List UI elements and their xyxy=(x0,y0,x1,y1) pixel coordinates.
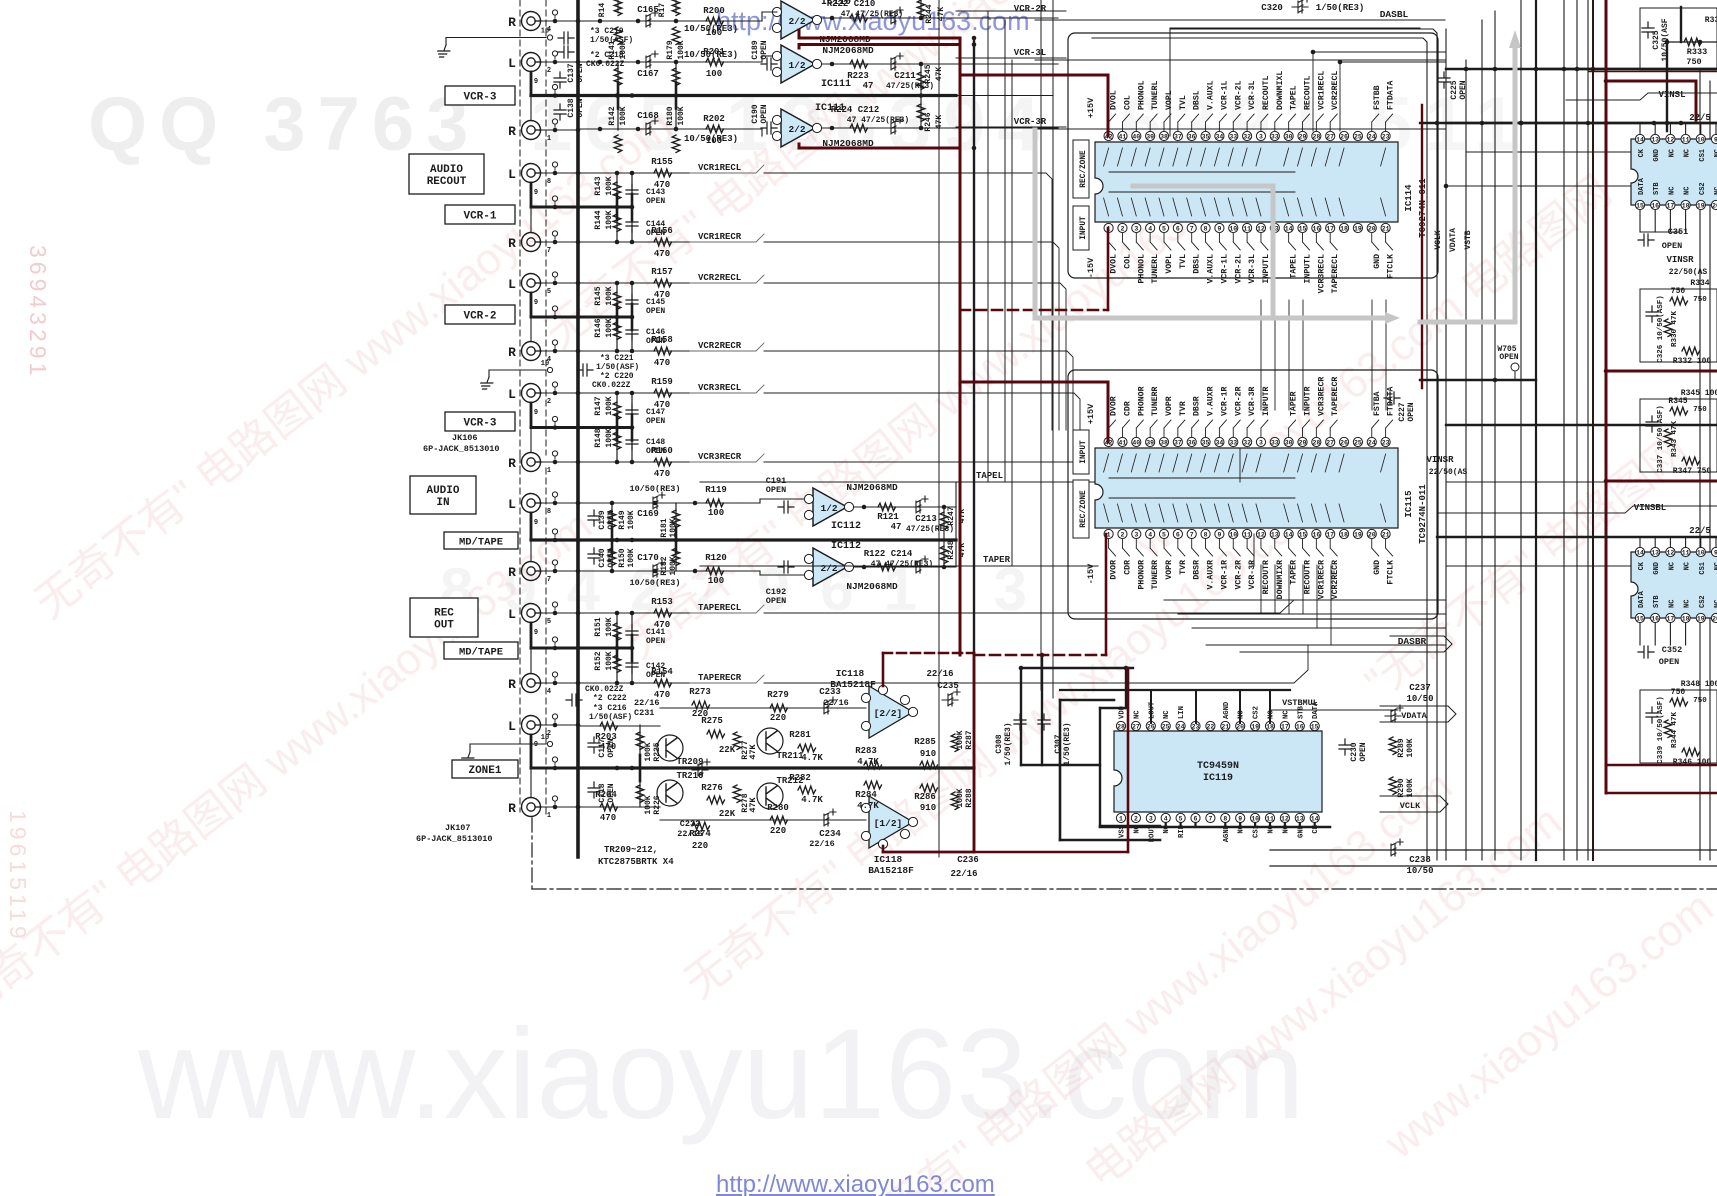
svg-text:R344 47K: R344 47K xyxy=(1671,712,1679,749)
svg-text:2: 2 xyxy=(547,67,551,75)
svg-text:3: 3 xyxy=(1134,226,1138,233)
svg-text:L: L xyxy=(508,277,516,292)
wire component column stub xyxy=(631,613,633,683)
resistor R283 xyxy=(864,761,882,769)
wire vertical x1012 xyxy=(1011,60,1013,566)
wire IC119 left bus xyxy=(1059,700,1062,840)
svg-text:18: 18 xyxy=(1340,532,1348,539)
svg-text:14: 14 xyxy=(1311,816,1319,823)
svg-text:CK: CK xyxy=(1638,561,1646,570)
resistor R222 xyxy=(850,14,868,22)
wire horizontal to right xyxy=(1446,68,1717,70)
svg-text:R120: R120 xyxy=(705,553,727,563)
svg-text:26: 26 xyxy=(1147,724,1155,731)
svg-text:1/50(RE3): 1/50(RE3) xyxy=(1004,722,1013,765)
svg-text:C232: C232 xyxy=(680,819,700,829)
wire jack to bus xyxy=(541,392,578,394)
resistor R290 xyxy=(1389,777,1397,795)
svg-text:LOUT: LOUT xyxy=(1148,701,1156,719)
svg-text:TVL: TVL xyxy=(1179,95,1188,110)
svg-text:NC: NC xyxy=(1684,187,1692,195)
svg-text:9: 9 xyxy=(1238,816,1242,823)
svg-text:VSTBMUL: VSTBMUL xyxy=(1282,698,1318,708)
svg-text:30: 30 xyxy=(1285,440,1293,447)
svg-text:100: 100 xyxy=(708,576,724,586)
svg-text:OUT: OUT xyxy=(434,620,454,632)
resistor R145 xyxy=(613,292,621,310)
svg-text:NC: NC xyxy=(1684,600,1692,608)
svg-text:34: 34 xyxy=(1215,134,1223,141)
svg-text:25: 25 xyxy=(1162,724,1170,731)
wire row y=62 xyxy=(578,61,746,63)
jack R terminal xyxy=(522,121,542,140)
svg-text:R149: R149 xyxy=(618,510,627,529)
svg-text:9: 9 xyxy=(534,519,538,527)
svg-text:REC: REC xyxy=(434,608,454,620)
svg-text:C168: C168 xyxy=(637,111,659,121)
svg-text:36943291: 36943291 xyxy=(25,245,51,379)
resistor R151 xyxy=(613,623,621,641)
resistor R160 xyxy=(654,458,672,466)
wire rec row VCR1RECL xyxy=(578,172,700,174)
wire row y=129 xyxy=(578,128,746,130)
svg-text:DVOR: DVOR xyxy=(1110,396,1119,416)
wire IC115 bottom stub xyxy=(1260,565,1262,614)
open terminal gnd row xyxy=(547,367,552,372)
svg-text:21: 21 xyxy=(1221,724,1229,731)
svg-text:IN: IN xyxy=(436,497,449,509)
svg-text:470: 470 xyxy=(654,469,670,479)
svg-text:R273: R273 xyxy=(689,687,711,697)
svg-text:L: L xyxy=(508,497,516,512)
svg-text:R150: R150 xyxy=(618,548,627,567)
svg-text:17: 17 xyxy=(1281,724,1289,731)
resistor R275 xyxy=(707,730,725,738)
svg-text:38: 38 xyxy=(1160,440,1168,447)
wire group mid row xyxy=(531,426,632,429)
label VCR-3 (top) xyxy=(445,86,515,105)
INPUT boxed label IC115 xyxy=(1073,430,1089,474)
svg-text:TAPER: TAPER xyxy=(1290,391,1299,416)
svg-text:FTCLK: FTCLK xyxy=(1387,254,1396,279)
svg-text:DBSR: DBSR xyxy=(1193,396,1202,416)
svg-text:39: 39 xyxy=(1146,440,1154,447)
svg-text:5: 5 xyxy=(547,288,551,296)
svg-text:VCR2RECR: VCR2RECR xyxy=(1331,560,1340,599)
svg-text:RECOUTR: RECOUTR xyxy=(1262,560,1271,594)
wire jack sleeve stem xyxy=(530,403,533,428)
svg-text:9: 9 xyxy=(1217,532,1221,539)
resistor R181 xyxy=(672,510,680,528)
wire to IC118a xyxy=(660,707,866,709)
svg-text:470: 470 xyxy=(654,249,670,259)
svg-text:8: 8 xyxy=(1204,532,1208,539)
capacitor C143 xyxy=(626,184,638,200)
wire IC111b out xyxy=(822,127,1058,129)
svg-text:3: 3 xyxy=(1134,532,1138,539)
wire R333 row xyxy=(1667,41,1717,43)
svg-text:750: 750 xyxy=(1693,406,1707,414)
svg-text:7: 7 xyxy=(1208,816,1212,823)
svg-text:47: 47 xyxy=(891,522,902,532)
svg-text:TR209: TR209 xyxy=(676,757,703,767)
open terminal xyxy=(554,456,556,459)
wire TAPER xyxy=(700,565,1098,567)
svg-text:VINSR: VINSR xyxy=(1666,255,1694,265)
svg-text:33: 33 xyxy=(1229,440,1237,447)
svg-text:9: 9 xyxy=(534,741,538,749)
wire VDD rail xyxy=(1021,667,1133,669)
svg-text:VCR-3R: VCR-3R xyxy=(1014,117,1047,127)
svg-text:7: 7 xyxy=(547,576,551,584)
svg-text:VCR-3R: VCR-3R xyxy=(1248,386,1257,416)
wire vertical x1053 xyxy=(1052,0,1054,698)
svg-text:100K: 100K xyxy=(627,548,636,567)
svg-text:TUNERR: TUNERR xyxy=(1151,560,1160,590)
svg-text:100K: 100K xyxy=(605,617,614,636)
open terminal xyxy=(554,124,556,127)
maroon wire -15V IC114 xyxy=(1107,228,1110,310)
svg-text:R332 100: R332 100 xyxy=(1673,357,1712,366)
wire jack sleeve stem xyxy=(530,293,533,317)
svg-text:19: 19 xyxy=(1697,203,1705,210)
resistor network right net 1 xyxy=(1640,289,1717,362)
svg-text:32: 32 xyxy=(1243,134,1251,141)
svg-text:CK0.022Z: CK0.022Z xyxy=(585,685,624,694)
svg-text:25: 25 xyxy=(1354,134,1362,141)
jack L terminal xyxy=(522,53,542,72)
wire y38 corner down x1427 xyxy=(1092,38,1427,860)
svg-text:CS2: CS2 xyxy=(1253,706,1261,719)
svg-text:16: 16 xyxy=(1651,616,1659,623)
svg-text:R244: R244 xyxy=(925,4,934,23)
svg-text:R333: R333 xyxy=(1687,47,1707,57)
svg-text:9: 9 xyxy=(534,409,538,417)
svg-text:NC: NC xyxy=(1668,562,1676,570)
resistor R157 xyxy=(654,279,672,287)
svg-text:FTDATA: FTDATA xyxy=(1387,80,1396,110)
svg-text:750: 750 xyxy=(1686,57,1701,67)
svg-text:10/50(RE3): 10/50(RE3) xyxy=(684,134,738,144)
open terminal xyxy=(554,607,556,610)
wire right edge vertical 1 xyxy=(1699,70,1701,860)
right IC1 pin stubs top xyxy=(1639,123,1641,134)
svg-text:17: 17 xyxy=(1666,203,1674,210)
IC IC114 top pin labels xyxy=(1108,122,1110,131)
transistor TR209 xyxy=(657,735,683,761)
maroon wire right inner vert xyxy=(1421,105,1423,388)
IC119 top feed bus xyxy=(1060,689,1290,691)
svg-text:VCR-2: VCR-2 xyxy=(463,311,496,323)
resistor R225 xyxy=(636,732,644,750)
svg-text:C211: C211 xyxy=(894,71,916,81)
wire right bus vertical xyxy=(1563,0,1565,860)
wire component column stub xyxy=(616,613,618,683)
svg-text:DVOL: DVOL xyxy=(1110,254,1119,274)
capacitor C218 cluster top xyxy=(558,32,574,44)
wire component column stub xyxy=(616,283,618,351)
svg-text:FSTBB: FSTBB xyxy=(1373,85,1382,110)
wire group mid row xyxy=(531,316,632,319)
svg-text:28: 28 xyxy=(1312,134,1320,141)
label REC OUT xyxy=(410,598,478,637)
svg-text:1/50(ASF): 1/50(ASF) xyxy=(589,713,632,722)
wire component column stub xyxy=(675,503,677,571)
open terminal xyxy=(554,565,556,568)
wire DASBL corner down x1437 xyxy=(1170,29,1437,860)
resistor R223 xyxy=(850,60,868,68)
svg-text:34: 34 xyxy=(1215,440,1223,447)
wire IC115 bottom stub xyxy=(1288,565,1290,614)
svg-text:BA15218F: BA15218F xyxy=(830,679,876,690)
svg-text:VCR-1L: VCR-1L xyxy=(1220,80,1229,110)
svg-text:C169: C169 xyxy=(637,509,659,519)
svg-text:27: 27 xyxy=(1132,724,1140,731)
svg-text:100K: 100K xyxy=(956,788,965,807)
svg-text:C145: C145 xyxy=(646,298,665,307)
wire group mid row xyxy=(531,539,632,542)
svg-text:R282: R282 xyxy=(789,773,811,783)
svg-text:*3 C221: *3 C221 xyxy=(600,354,634,363)
svg-text:RECOUTL: RECOUTL xyxy=(1304,76,1313,110)
svg-text:VCR-1L: VCR-1L xyxy=(1220,254,1229,284)
svg-text:R246: R246 xyxy=(924,112,933,131)
svg-text:R203: R203 xyxy=(595,732,617,742)
capacitor C307 xyxy=(1038,714,1050,730)
open terminal xyxy=(554,677,556,680)
maroon wire right main vertical xyxy=(1605,0,1608,793)
svg-text:29: 29 xyxy=(1299,440,1307,447)
svg-text:R153: R153 xyxy=(651,597,673,607)
svg-text:VCR1RECL: VCR1RECL xyxy=(698,163,741,173)
svg-text:220: 220 xyxy=(692,841,708,851)
svg-text:23: 23 xyxy=(1192,724,1200,731)
resistor R286 xyxy=(920,784,938,792)
svg-text:8: 8 xyxy=(547,178,551,186)
ground xyxy=(470,744,546,752)
wire dash-dot border bottom xyxy=(532,888,1717,890)
svg-text:VCR-2R: VCR-2R xyxy=(1014,4,1047,14)
wire jack to bus xyxy=(541,806,578,808)
wire rec row TAPERECL xyxy=(578,612,700,614)
svg-text:220: 220 xyxy=(770,713,786,723)
wire horizontal to right xyxy=(1446,481,1717,483)
gray highlight path C xyxy=(1420,48,1515,322)
svg-text:OPEN: OPEN xyxy=(646,417,665,426)
transistor TR211 xyxy=(757,728,783,754)
svg-text:R284: R284 xyxy=(855,790,877,800)
svg-text:14: 14 xyxy=(1285,532,1293,539)
wire IC119 top stub xyxy=(1195,690,1197,723)
svg-text:R222 C210: R222 C210 xyxy=(827,0,876,9)
capacitor C147 xyxy=(626,404,638,420)
resistor R273 xyxy=(692,701,710,709)
svg-text:10/50: 10/50 xyxy=(1406,694,1433,704)
wire rec net to bundle xyxy=(764,430,1087,468)
svg-text:12: 12 xyxy=(1666,550,1674,557)
label ZONE1 xyxy=(452,760,518,778)
svg-text:R348 100: R348 100 xyxy=(1681,680,1717,689)
svg-text:22/50(AS: 22/50(AS xyxy=(1429,468,1468,477)
capacitor C230 xyxy=(1339,739,1351,755)
wire vertical x939 xyxy=(938,0,940,857)
capacitor C238 xyxy=(1385,839,1403,856)
label VCR-2 xyxy=(445,305,515,324)
svg-text:19: 19 xyxy=(1354,226,1362,233)
svg-text:1/50(RE3): 1/50(RE3) xyxy=(1316,3,1365,13)
resistor R202 xyxy=(706,125,724,133)
svg-text:MD/TAPE: MD/TAPE xyxy=(459,537,503,549)
svg-text:C238: C238 xyxy=(1409,855,1431,865)
svg-text:R247: R247 xyxy=(947,506,956,525)
IC IC115 selector2 body xyxy=(1095,448,1398,528)
svg-text:33: 33 xyxy=(1271,440,1279,447)
resistor R121 xyxy=(878,503,896,511)
svg-text:VCR-2L: VCR-2L xyxy=(1234,254,1243,284)
svg-text:C141: C141 xyxy=(646,628,665,637)
svg-text:STB: STB xyxy=(1653,595,1661,608)
svg-text:750: 750 xyxy=(1671,287,1686,296)
capacitor C191 xyxy=(778,501,794,513)
svg-text:10: 10 xyxy=(1229,226,1237,233)
svg-text:220: 220 xyxy=(692,709,708,719)
wire component column stub xyxy=(611,503,613,571)
resistor R122 xyxy=(878,563,896,571)
svg-text:TUNERL: TUNERL xyxy=(1151,80,1160,110)
svg-text:L: L xyxy=(508,56,516,71)
svg-text:R345 100: R345 100 xyxy=(1681,389,1717,398)
resistor R154 xyxy=(654,679,672,687)
net flag VDATA xyxy=(1380,706,1456,722)
svg-text:R181: R181 xyxy=(660,518,669,537)
svg-text:VCLK: VCLK xyxy=(1400,801,1421,811)
svg-text:NC: NC xyxy=(1238,710,1246,719)
svg-text:AGND: AGND xyxy=(1223,701,1231,719)
capacitor C169 xyxy=(647,492,665,509)
resistor R226 xyxy=(636,785,644,803)
svg-text:15: 15 xyxy=(1299,226,1307,233)
capacitor C308 xyxy=(1014,714,1026,730)
svg-text:C307: C307 xyxy=(1054,734,1063,753)
svg-text:100K: 100K xyxy=(627,510,636,529)
capacitor C144 xyxy=(626,216,638,232)
jack L terminal xyxy=(522,384,542,403)
resistor vertical C165b xyxy=(672,27,680,45)
svg-text:21: 21 xyxy=(1382,532,1390,539)
svg-text:35: 35 xyxy=(1202,440,1210,447)
svg-text:2: 2 xyxy=(1120,532,1124,539)
svg-text:JK106: JK106 xyxy=(452,433,478,443)
svg-text:R: R xyxy=(508,677,516,692)
svg-text:10: 10 xyxy=(541,28,549,36)
svg-text:VCR-2R: VCR-2R xyxy=(1234,386,1243,416)
svg-text:17: 17 xyxy=(1326,532,1334,539)
resistor R146 xyxy=(613,322,621,340)
svg-text:C237: C237 xyxy=(1409,683,1431,693)
svg-text:R276: R276 xyxy=(701,783,723,793)
svg-text:47K: 47K xyxy=(748,743,758,759)
svg-text:22/16: 22/16 xyxy=(823,698,849,708)
svg-text:9: 9 xyxy=(1217,226,1221,233)
wire IC119 top stub xyxy=(1269,690,1271,723)
wire IC112b out xyxy=(854,566,956,568)
wire C307 stem xyxy=(1041,655,1043,765)
wire jack to bus xyxy=(541,724,578,726)
wire right h3 xyxy=(1420,379,1536,381)
svg-text:TVR: TVR xyxy=(1179,401,1188,416)
maroon wire IC110 loop xyxy=(799,30,960,38)
svg-text:R145: R145 xyxy=(594,286,603,305)
svg-text:33: 33 xyxy=(1271,134,1279,141)
wire jack to bus xyxy=(541,241,578,243)
svg-text:C147: C147 xyxy=(646,408,665,417)
IC IC114 selector body xyxy=(1095,142,1398,222)
svg-text:R154: R154 xyxy=(651,667,673,677)
svg-text:100K: 100K xyxy=(619,106,628,125)
svg-text:47K: 47K xyxy=(748,796,758,812)
open terminal gnd row xyxy=(547,35,552,40)
capacitor C212 xyxy=(885,117,903,134)
svg-text:R182: R182 xyxy=(660,556,669,575)
capacitor C141 xyxy=(626,625,638,641)
svg-text:R156: R156 xyxy=(651,226,673,236)
capacitor C222 xyxy=(566,694,582,706)
svg-text:NC: NC xyxy=(1668,187,1676,195)
svg-text:13: 13 xyxy=(1296,816,1304,823)
svg-text:VCR-1R: VCR-1R xyxy=(1220,386,1229,416)
svg-text:22/50(AS: 22/50(AS xyxy=(1669,268,1708,277)
svg-text:R204: R204 xyxy=(595,790,617,800)
svg-text:INPUTR: INPUTR xyxy=(1304,386,1313,416)
right IC1 pin stubs bottom xyxy=(1639,210,1641,232)
svg-text:TUNERL: TUNERL xyxy=(1151,254,1160,284)
op-amp U IC111 (2/2) xyxy=(781,109,815,147)
svg-text:R144: R144 xyxy=(594,210,603,229)
svg-text:VCR3RECR: VCR3RECR xyxy=(698,452,742,462)
label VCR-3 xyxy=(445,412,515,431)
right IC2 pin stubs top xyxy=(1639,537,1641,547)
svg-text:CK0.022Z: CK0.022Z xyxy=(586,60,625,69)
wire inter-IC net xyxy=(1288,300,1290,410)
jack R terminal xyxy=(522,233,542,252)
svg-text:5: 5 xyxy=(1179,816,1183,823)
wire jack to bus xyxy=(541,61,578,63)
selector enclosure box IC114 xyxy=(1068,33,1438,278)
svg-text:AUDIO: AUDIO xyxy=(430,164,463,176)
wire right bus vertical xyxy=(1535,0,1537,860)
open terminal xyxy=(554,236,556,239)
svg-text:NC: NC xyxy=(1668,600,1676,608)
svg-text:24: 24 xyxy=(1368,440,1376,447)
jack L terminal xyxy=(522,494,542,513)
label AUDIO RECOUT xyxy=(409,154,484,194)
wire zone1 L row xyxy=(578,725,660,727)
wire jack to bus xyxy=(541,350,578,352)
svg-text:C165: C165 xyxy=(637,5,659,15)
svg-text:100K: 100K xyxy=(605,210,614,229)
svg-text:C167: C167 xyxy=(637,69,659,79)
svg-text:TR209~212,: TR209~212, xyxy=(604,845,658,855)
svg-text:R: R xyxy=(508,236,516,251)
wire collect 2 xyxy=(1178,613,1446,615)
capacitor C140 xyxy=(588,548,600,564)
svg-text:7: 7 xyxy=(1190,226,1194,233)
svg-text:28: 28 xyxy=(1312,440,1320,447)
svg-text:VCR-1R: VCR-1R xyxy=(1220,560,1229,590)
svg-text:IC114: IC114 xyxy=(1404,184,1414,212)
svg-text:NJM2068MD: NJM2068MD xyxy=(846,482,898,493)
svg-text:6: 6 xyxy=(1176,226,1180,233)
